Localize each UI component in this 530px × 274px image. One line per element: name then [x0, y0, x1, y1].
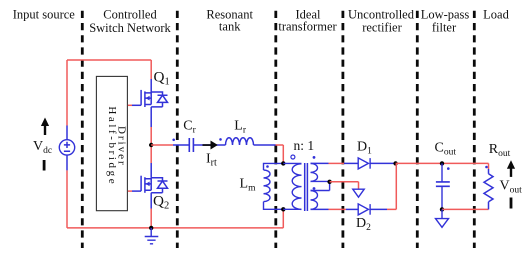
- svg-text:Uncontrolled: Uncontrolled: [348, 7, 415, 21]
- svg-text:Load: Load: [483, 7, 509, 21]
- Lm phase marker: [266, 165, 269, 168]
- wire secondary bottom to D2: [311, 208, 329, 210]
- secondary phase dots: [313, 156, 316, 159]
- node transformer top: [281, 161, 285, 165]
- node marker near Cout: [447, 167, 450, 170]
- half-bridge driver text: [106, 106, 127, 186]
- wire left rail below Vdc source: [66, 155, 68, 170]
- wire rectifier riser D2 to output: [387, 163, 396, 209]
- transformer secondary upper winding: [311, 163, 330, 181]
- svg-text:n: 1: n: 1: [293, 138, 314, 153]
- transformer secondary lower winding: [311, 181, 330, 209]
- wire Q2 drain: [150, 145, 152, 163]
- voltage source Vdc: [59, 140, 74, 155]
- transformer core: [305, 163, 308, 211]
- transistor Q1: [141, 90, 167, 107]
- inductor Lr: [226, 138, 254, 145]
- ground below Q2: [145, 228, 159, 244]
- wire Q2 source to bottom rail: [150, 193, 152, 209]
- node center tap: [327, 180, 331, 184]
- svg-text:transformer: transformer: [278, 20, 337, 34]
- wire mid node to Cr: [151, 144, 173, 146]
- section label Controlled Switch Network: [89, 7, 171, 35]
- svg-text:rectifier: rectifier: [362, 20, 402, 34]
- section label Resonant tank: [206, 7, 253, 33]
- capacitor Cout: [436, 163, 450, 209]
- svg-text:Controlled: Controlled: [103, 7, 157, 21]
- Vdc polarity minus bar: [43, 160, 46, 171]
- wire Q1 gate lead: [128, 104, 132, 106]
- dashed boundary line 3: [274, 11, 277, 248]
- resistor Rout: [484, 174, 493, 202]
- capacitor Cr: [189, 138, 193, 152]
- wire Q2 gate lead: [128, 190, 132, 192]
- node Cout bottom: [440, 207, 444, 211]
- ground center tap triangle: [353, 189, 364, 197]
- Vout polarity arrow: [507, 160, 515, 177]
- wire load bottom lead: [488, 202, 490, 210]
- wire Q1 drain: [150, 60, 152, 79]
- wire Cout bottom to load bottom: [442, 208, 489, 210]
- svg-text:Input source: Input source: [13, 7, 76, 21]
- inductor Lm: [264, 163, 284, 209]
- svg-text:tank: tank: [219, 20, 241, 34]
- current arrow Irt: [203, 141, 218, 150]
- transformer primary phase dot: [291, 155, 295, 159]
- svg-text:Switch Network: Switch Network: [89, 21, 171, 35]
- dashed boundary line 4: [341, 11, 344, 248]
- node bottom rail at ground: [149, 226, 153, 230]
- node Cout top: [440, 161, 444, 165]
- transformer primary winding: [283, 163, 301, 209]
- svg-text:filter: filter: [432, 20, 457, 34]
- node marker near Rout: [485, 166, 488, 169]
- svg-text:Driver: Driver: [116, 126, 128, 167]
- ground below Cout: [436, 209, 449, 227]
- wire Lr to transformer corner: [254, 144, 276, 146]
- wire D2 cathode: [370, 208, 387, 210]
- node marker before Lr: [219, 138, 222, 141]
- wire bottom rail: [67, 227, 283, 229]
- dashed boundary line 2: [176, 11, 179, 248]
- diode D2: [358, 204, 370, 215]
- half-bridge driver box: [96, 76, 127, 210]
- dashed boundary line 1: [81, 11, 84, 248]
- section label Low-pass filter: [421, 7, 470, 34]
- wire load top lead: [488, 163, 490, 169]
- wire top rail from Vdc to Q1 drain: [67, 59, 151, 61]
- Vout polarity minus bar: [510, 198, 513, 209]
- dashed boundary line 6: [473, 11, 476, 248]
- section label Ideal transformer: [278, 7, 337, 33]
- wire Q1 source to mid node: [150, 107, 152, 127]
- wire D1 to output node: [370, 162, 396, 164]
- section label Uncontrolled rectifier: [348, 7, 415, 34]
- node transformer bottom: [281, 207, 285, 211]
- wire output node to load: [396, 162, 489, 164]
- wire left rail above Vdc source: [66, 60, 68, 126]
- diode D1: [358, 158, 370, 169]
- wire Cr to Lr: [193, 144, 225, 146]
- Vdc polarity arrow: [41, 118, 49, 136]
- node mid-bridge: [149, 143, 153, 147]
- wire secondary top to D1: [311, 162, 329, 164]
- wire riser from bottom rail to transformer bottom: [282, 209, 284, 228]
- wire center tap to ground: [330, 182, 359, 189]
- svg-text:Low-pass: Low-pass: [421, 7, 470, 21]
- dashed boundary line 5: [416, 11, 419, 248]
- node marker before Cr: [172, 139, 175, 142]
- node rectifier output: [393, 161, 397, 165]
- transistor Q2: [141, 176, 167, 193]
